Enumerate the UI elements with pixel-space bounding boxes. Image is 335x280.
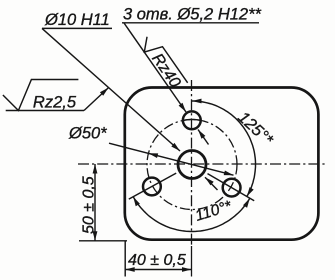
left hole bbox=[143, 178, 161, 196]
svg-text:50 ± 0,5: 50 ± 0,5 bbox=[81, 176, 98, 234]
radial centerline left hole bbox=[129, 173, 176, 199]
svg-text:Ø50*: Ø50* bbox=[68, 125, 107, 143]
label 125deg bbox=[234, 108, 276, 149]
extension line bottom edge bbox=[79, 240, 127, 242]
dimension 50 plus-minus 0,5 bbox=[94, 164, 96, 241]
leader shelf dia10 bbox=[42, 27, 112, 29]
svg-text:3 отв. Ø5,2 H12**: 3 отв. Ø5,2 H12** bbox=[123, 6, 262, 24]
radial centerline right hole bbox=[208, 174, 255, 201]
svg-text:Rz40: Rz40 bbox=[148, 51, 183, 91]
vertical centerline extension below plate bbox=[191, 246, 193, 277]
leader shelf dia5,2 bbox=[122, 22, 259, 24]
angle dimension arc 110deg bbox=[133, 197, 250, 232]
roughness symbol Rz40 bbox=[137, 33, 188, 94]
roughness leader shelf Rz2,5 bbox=[6, 110, 84, 112]
extension line left edge bbox=[124, 241, 126, 277]
svg-text:Rz2,5: Rz2,5 bbox=[33, 94, 77, 112]
horizontal centerline bbox=[78, 163, 326, 165]
angle dimension arc 125deg bbox=[192, 101, 256, 197]
dia10 far-side arrow bbox=[205, 177, 218, 190]
svg-text:40 ± 0,5: 40 ± 0,5 bbox=[128, 252, 186, 269]
leader line 3 holes dia5,2 bbox=[124, 23, 186, 112]
roughness symbol Rz2,5 bbox=[3, 80, 79, 112]
right hole bbox=[223, 179, 241, 197]
bolt circle centerline bbox=[147, 120, 237, 210]
dimension 40 plus-minus 0,5 bbox=[125, 269, 191, 271]
label 110deg bbox=[193, 197, 234, 224]
svg-text:125°*: 125°* bbox=[234, 108, 276, 149]
leader line dia10 bbox=[42, 28, 180, 151]
center hole bbox=[178, 151, 206, 179]
bolt circle segment through top hole bbox=[183, 119, 200, 122]
bolt circle dia50 dimension line bbox=[109, 143, 234, 175]
dia5,2 far-side arrow bbox=[198, 130, 209, 145]
label 50 pm 0,5 bbox=[81, 176, 98, 234]
top hole bbox=[183, 111, 201, 129]
vertical centerline bbox=[191, 80, 193, 246]
svg-text:Ø10 H11: Ø10 H11 bbox=[44, 11, 110, 29]
plate outline bbox=[125, 88, 319, 240]
